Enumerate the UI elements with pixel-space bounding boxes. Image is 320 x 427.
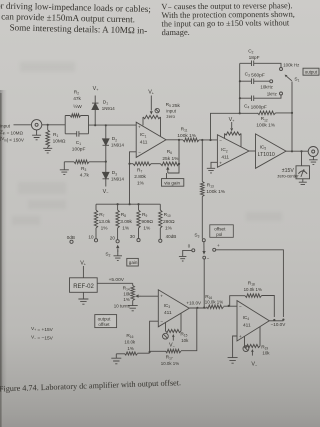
svg-text:+10.0V: +10.0V bbox=[186, 300, 202, 305]
potentiometer R6 25k (gain trim) bbox=[161, 162, 180, 166]
capacitor C2 18pF branch (100kHz) bbox=[240, 61, 281, 68]
svg-text:−: − bbox=[207, 256, 210, 261]
svg-text:output: output bbox=[98, 316, 111, 321]
wire (IC4 output -10.0V) bbox=[269, 320, 283, 322]
svg-text:1%: 1% bbox=[137, 181, 145, 187]
input BNC connector J1 bbox=[14, 120, 42, 130]
svg-text:411: 411 bbox=[164, 310, 172, 316]
svg-text:2.80k: 2.80k bbox=[134, 174, 146, 180]
svg-text:100k 1%: 100k 1% bbox=[256, 123, 275, 129]
ghost show-through bbox=[12, 62, 282, 225]
ground (S3 zero position) bbox=[179, 256, 187, 261]
ground (S2 wiper) bbox=[114, 256, 123, 261]
svg-text:1%: 1% bbox=[122, 225, 130, 231]
wire (gain divider bus) bbox=[96, 203, 160, 205]
svg-text:0dB: 0dB bbox=[67, 235, 75, 240]
resistor R16 10.0k (to IC4) bbox=[207, 305, 238, 309]
svg-text:13.0k: 13.0k bbox=[99, 219, 111, 225]
svg-text:411: 411 bbox=[243, 322, 251, 328]
resistor R2 47k (top branch of parallel network) bbox=[65, 114, 88, 117]
svg-text:100pF: 100pF bbox=[72, 146, 86, 152]
ground (IC4 + input) bbox=[228, 336, 238, 363]
svg-text:25k 1%: 25k 1% bbox=[162, 156, 179, 162]
svg-text:|Vin| < 150V: |Vin| < 150V bbox=[0, 136, 25, 142]
svg-text:1%: 1% bbox=[127, 346, 133, 351]
svg-text:40dB: 40dB bbox=[166, 234, 177, 239]
svg-text:4.7k: 4.7k bbox=[80, 173, 90, 179]
potentiometer (IC2 offset trim) with V+ bbox=[225, 132, 242, 147]
svg-text:10.0k: 10.0k bbox=[124, 340, 136, 345]
svg-text:1N914: 1N914 bbox=[111, 143, 124, 148]
svg-text:−10.0V: −10.0V bbox=[271, 322, 287, 327]
svg-text:input: input bbox=[0, 123, 11, 128]
svg-text:1N914: 1N914 bbox=[102, 106, 115, 111]
ground (output BNC) bbox=[309, 157, 318, 165]
svg-text:input: input bbox=[166, 108, 176, 113]
resistor R8 3.09k bbox=[116, 204, 119, 240]
op-amp IC5 LT1010 buffer bbox=[249, 150, 256, 152]
wire (IC3 feedback) bbox=[150, 321, 159, 352]
svg-text:10: 10 bbox=[88, 235, 94, 240]
svg-text:+: + bbox=[138, 125, 141, 130]
potentiometer R14 10k 10 turns bbox=[131, 283, 135, 305]
diode D3 1N914 bbox=[103, 172, 110, 186]
wire (IC5 output to BNC) bbox=[286, 150, 308, 152]
resistor R10 280ohm bbox=[159, 204, 162, 239]
wire (parallel network frame) bbox=[65, 116, 88, 134]
svg-text:100k 1%: 100k 1% bbox=[177, 133, 196, 139]
svg-text:via gain: via gain bbox=[164, 180, 180, 185]
ground (R16b) bbox=[111, 358, 121, 364]
svg-text:10k: 10k bbox=[181, 338, 189, 343]
resistor R17 10.0k (IC3 feedback) bbox=[150, 308, 197, 353]
resistor R1 10M bbox=[46, 125, 50, 149]
wire (feedback node down to gain divider bus) bbox=[129, 164, 131, 205]
diode D1 1N914 (clamp to V+) bbox=[92, 96, 99, 126]
wire (network to IC1 + input) bbox=[89, 124, 137, 126]
potentiometer R15 10k (IC3 trim) bbox=[166, 313, 182, 333]
svg-text:280Ω: 280Ω bbox=[163, 219, 175, 225]
resistor R3 4.7k bbox=[64, 160, 106, 164]
voltage reference REF-02 bbox=[70, 266, 98, 292]
svg-text:1%: 1% bbox=[101, 225, 109, 231]
svg-text:zero-center: zero-center bbox=[277, 174, 299, 179]
wire (+5.00V to R14) bbox=[97, 282, 133, 284]
svg-text:damage.: damage. bbox=[162, 28, 190, 37]
svg-text:+: + bbox=[219, 160, 222, 165]
ground (below R1) bbox=[43, 148, 52, 153]
meter M1 +-15V zero-center bbox=[296, 151, 310, 184]
capacitor C4 1800pF branch (1kHz) bbox=[240, 95, 281, 101]
svg-text:−: − bbox=[219, 138, 222, 143]
ground (left of R3) bbox=[60, 162, 69, 175]
svg-text:gain: gain bbox=[129, 260, 138, 265]
top right paragraph bbox=[161, 1, 295, 37]
resistor R16b 10.0k (to ground) bbox=[116, 352, 149, 358]
svg-text:REF-02: REF-02 bbox=[73, 284, 94, 290]
wire (S3 - contact down to +10V node) bbox=[203, 259, 205, 307]
wire (input to R2C1 network) bbox=[42, 124, 65, 126]
op-amp IC3 411 bbox=[158, 290, 189, 327]
svg-text:zero: zero bbox=[166, 114, 175, 119]
node (IC1 output) bbox=[166, 139, 183, 141]
svg-text:LT1010: LT1010 bbox=[258, 152, 275, 158]
svg-text:411: 411 bbox=[140, 140, 148, 146]
svg-text:10kHz: 10kHz bbox=[260, 84, 272, 89]
svg-text:1kHz: 1kHz bbox=[267, 91, 277, 96]
svg-text:−: − bbox=[138, 150, 141, 155]
svg-text:10 turns: 10 turns bbox=[114, 304, 131, 309]
svg-text:−: − bbox=[239, 304, 242, 309]
svg-text:offset: offset bbox=[214, 226, 226, 231]
node (D2/D3/R3 junction) bbox=[105, 145, 107, 172]
schematic text labels bbox=[0, 49, 300, 366]
svg-text:10MΩ: 10MΩ bbox=[53, 138, 66, 144]
svg-text:+: + bbox=[217, 243, 220, 248]
svg-text:pol: pol bbox=[216, 232, 222, 237]
svg-text:909Ω: 909Ω bbox=[141, 219, 153, 225]
wire (IC1 inverting input) bbox=[130, 152, 137, 164]
switch S2 wiper bbox=[116, 245, 119, 256]
wire (IC3 output +10.0V node) bbox=[189, 307, 206, 309]
svg-text:1%: 1% bbox=[165, 225, 173, 231]
ground (input connector) bbox=[32, 130, 41, 140]
resistor R7 2.80k bbox=[130, 162, 161, 166]
svg-text:10.0k 1%: 10.0k 1% bbox=[205, 300, 223, 305]
svg-text:½W: ½W bbox=[73, 103, 82, 110]
svg-text:100k 1%: 100k 1% bbox=[206, 189, 225, 195]
resistor R13 100k (offset injection) bbox=[201, 140, 205, 239]
wire (feedback down to output node) bbox=[291, 113, 293, 151]
box: output offset bbox=[95, 315, 117, 328]
svg-text:30: 30 bbox=[130, 234, 136, 239]
switch S3 offset polarity bbox=[202, 239, 205, 242]
wire (S3 + contact to -10V line) bbox=[216, 250, 284, 317]
svg-text:1N914: 1N914 bbox=[111, 177, 124, 182]
wire (cap bus vertical) bbox=[239, 63, 241, 113]
page shading overlays bbox=[0, 90, 7, 427]
ground (R14 bottom) bbox=[128, 306, 138, 311]
box: output bbox=[303, 68, 319, 75]
capacitor C1 100pF (bottom branch) bbox=[65, 131, 88, 137]
resistor R18 10.0k (IC4 feedback) bbox=[230, 294, 275, 317]
resistor R11 100k (series to IC2) bbox=[183, 138, 217, 142]
box: via gain bbox=[162, 179, 184, 187]
output BNC connector J2 bbox=[308, 147, 318, 157]
resistor R9 909ohm bbox=[137, 204, 140, 238]
wire (S3 left contact to ground) bbox=[183, 250, 192, 256]
node (D1 junction) bbox=[94, 124, 96, 126]
svg-text:−: − bbox=[160, 319, 163, 324]
svg-text:1%: 1% bbox=[123, 297, 129, 302]
box: offset pol bbox=[210, 225, 234, 238]
op-amp IC1 411 bbox=[136, 122, 166, 157]
potentiometer R5 25k input zero bbox=[143, 115, 161, 136]
svg-text:+: + bbox=[239, 334, 242, 339]
svg-text:100k Hz: 100k Hz bbox=[283, 63, 299, 68]
svg-text:+5.00V: +5.00V bbox=[109, 277, 125, 283]
svg-text:10.0k 1%: 10.0k 1% bbox=[244, 287, 262, 292]
ground (IC2 + input) bbox=[207, 162, 218, 173]
resistor R7a 13.0k (gain divider) bbox=[94, 204, 97, 239]
ground (REF-02) bbox=[78, 292, 88, 304]
potentiometer R19 10k (IC4 trim) bbox=[245, 327, 261, 348]
svg-text:offset: offset bbox=[98, 322, 110, 327]
svg-text:+: + bbox=[160, 293, 163, 298]
resistor R12 100k (feedback) bbox=[240, 111, 292, 115]
caption bbox=[0, 378, 181, 393]
capacitor C3 560pF branch (10kHz) bbox=[240, 79, 270, 85]
op-amp IC2 411 bbox=[217, 135, 249, 168]
wire (IC1 output down to R6 pot) bbox=[178, 140, 180, 164]
svg-text:20: 20 bbox=[110, 235, 116, 240]
svg-text:1%: 1% bbox=[143, 225, 151, 231]
svg-text:output: output bbox=[305, 70, 318, 75]
box: gain bbox=[127, 258, 139, 266]
svg-text:411: 411 bbox=[221, 155, 229, 161]
wire (summing junction up to cap bus) bbox=[211, 113, 240, 140]
svg-text:10.0k 1%: 10.0k 1% bbox=[161, 361, 179, 366]
op-amp IC4 411 bbox=[237, 301, 269, 341]
svg-text:3.09k: 3.09k bbox=[120, 219, 132, 225]
svg-text:10k: 10k bbox=[262, 351, 270, 356]
node (summing junction) bbox=[201, 139, 203, 141]
switch S1 wiper bbox=[285, 75, 292, 113]
switch S2 contacts (0dB,10,20,30,40dB taps) bbox=[70, 240, 73, 243]
diode D2 1N914 bbox=[103, 125, 110, 145]
node (D2 junction) bbox=[105, 124, 107, 126]
node (input/R1 junction) bbox=[47, 124, 49, 126]
top left paragraph bbox=[0, 0, 151, 35]
svg-text:10k: 10k bbox=[123, 291, 131, 296]
svg-text:47k: 47k bbox=[73, 96, 81, 102]
svg-text:18pF: 18pF bbox=[249, 55, 260, 61]
